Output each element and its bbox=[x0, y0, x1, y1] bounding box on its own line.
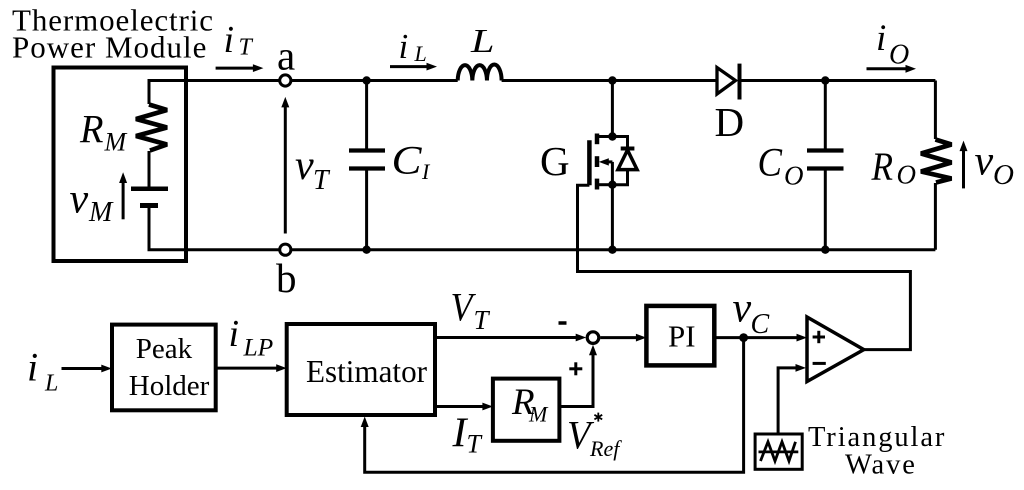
wire V_T to summing node bbox=[435, 334, 586, 342]
node dot: MOSFET source bottom bbox=[608, 246, 616, 254]
label minus bbox=[559, 321, 567, 325]
svg-text:v: v bbox=[70, 177, 89, 223]
arrow i_L to Peak Holder bbox=[62, 365, 112, 373]
block Estimator bbox=[287, 324, 435, 415]
node dot: C_I top bbox=[362, 76, 370, 84]
svg-text:Ref: Ref bbox=[589, 436, 622, 461]
mosfet drain stub bbox=[597, 135, 612, 138]
svg-text:v: v bbox=[295, 143, 314, 189]
resistor R_M bbox=[136, 105, 167, 151]
svg-text:L: L bbox=[470, 23, 495, 60]
wire: TPM internal top lead bbox=[149, 81, 186, 105]
label i_L bbox=[399, 27, 427, 66]
label V_Ref* bbox=[567, 413, 622, 462]
label v_C bbox=[733, 286, 770, 341]
svg-text:i: i bbox=[27, 345, 38, 390]
label i_LP bbox=[229, 313, 274, 362]
node dot: source junction bbox=[608, 181, 616, 189]
label i_L (control input) bbox=[27, 345, 58, 397]
wire: top rail left (box to inductor) bbox=[186, 79, 458, 82]
node dot v_C bbox=[739, 333, 748, 342]
svg-text:v: v bbox=[975, 139, 994, 185]
body diode triangle bbox=[618, 150, 637, 170]
mosfet channel tick bottom bbox=[595, 179, 600, 190]
svg-text:i: i bbox=[224, 19, 235, 61]
svg-text:M: M bbox=[528, 402, 549, 427]
label R_O bbox=[871, 144, 916, 190]
inductor L bbox=[458, 64, 502, 80]
svg-text:C: C bbox=[758, 140, 784, 185]
wire: resistor to battery bbox=[148, 151, 151, 187]
wire: top rail (inductor to diode) bbox=[502, 79, 717, 82]
arrow Peak Holder to Estimator bbox=[216, 364, 287, 372]
block R_M bbox=[493, 379, 560, 441]
node dot: drain junction bbox=[608, 132, 616, 140]
capacitor C_I bbox=[349, 81, 385, 250]
text: Triangular Wave bbox=[808, 422, 946, 481]
label i_O bbox=[876, 18, 909, 71]
mosfet channel tick middle bbox=[595, 156, 600, 167]
arrow v_O bbox=[960, 141, 968, 189]
capacitor C_O bbox=[807, 81, 844, 250]
svg-text:C: C bbox=[751, 309, 770, 340]
body diode wiring bbox=[612, 137, 627, 185]
resistor R_O bbox=[921, 140, 952, 183]
arrow i_O bbox=[867, 65, 917, 73]
svg-text:M: M bbox=[104, 128, 128, 157]
svg-text:LP: LP bbox=[243, 333, 274, 362]
text: Thermoelectric Power Module bbox=[12, 2, 214, 64]
arrow summing node to PI bbox=[600, 334, 646, 342]
wire: drain down bbox=[611, 81, 614, 137]
svg-text:i: i bbox=[876, 18, 886, 59]
wire: gate net from comparator output bbox=[578, 185, 911, 349]
label I_T bbox=[452, 411, 483, 459]
node a bbox=[280, 75, 291, 86]
svg-text:PI: PI bbox=[668, 319, 696, 354]
label i_T bbox=[224, 19, 254, 61]
svg-text:T: T bbox=[239, 35, 254, 61]
label v_M bbox=[70, 177, 115, 229]
wire: battery to bottom rail bbox=[149, 206, 186, 250]
node dot: C_I bottom bbox=[362, 246, 370, 254]
svg-text:M: M bbox=[88, 197, 114, 228]
svg-text:O: O bbox=[897, 160, 917, 190]
svg-text:L: L bbox=[414, 41, 427, 66]
svg-text:Estimator: Estimator bbox=[306, 353, 427, 389]
comparator plus bbox=[813, 331, 825, 343]
mosfet channel tick top bbox=[595, 134, 600, 145]
svg-text:R: R bbox=[79, 107, 103, 152]
block Triangular Wave generator bbox=[755, 434, 802, 469]
svg-text:Holder: Holder bbox=[129, 370, 210, 402]
block Peak Holder bbox=[112, 325, 216, 411]
arrow v_T bbox=[281, 97, 289, 234]
svg-text:b: b bbox=[276, 255, 297, 301]
svg-text:L: L bbox=[44, 371, 58, 397]
svg-text:a: a bbox=[277, 33, 295, 79]
label v_O bbox=[975, 139, 1015, 192]
wire triangular wave to comparator bbox=[778, 364, 806, 434]
arrow PI to comparator bbox=[714, 334, 807, 342]
arrow Estimator to R_M block bbox=[435, 403, 493, 411]
summing node bbox=[587, 332, 599, 344]
svg-text:C: C bbox=[392, 138, 423, 183]
svg-text:T: T bbox=[313, 165, 331, 196]
wire: right corner down to R_O bbox=[934, 81, 937, 140]
svg-text:Power Module: Power Module bbox=[12, 29, 207, 64]
arrow i_L bbox=[390, 63, 437, 71]
node dot: MOSFET drain top bbox=[608, 76, 616, 84]
wire: bottom rail bbox=[186, 248, 935, 251]
battery v_M bbox=[131, 189, 168, 206]
block PI bbox=[646, 306, 714, 366]
label C_I bbox=[392, 138, 432, 185]
transistor Q (MOSFET with body diode) bbox=[589, 132, 637, 189]
wire: body stub down to source bbox=[611, 162, 614, 185]
wire v_C feedback to Estimator bbox=[361, 338, 744, 473]
comparator U1 bbox=[807, 317, 864, 382]
svg-text:i: i bbox=[229, 313, 240, 355]
label R_M bbox=[79, 107, 127, 157]
arrow v_M bbox=[119, 172, 127, 219]
arrow i_T bbox=[216, 64, 264, 72]
svg-text:v: v bbox=[733, 286, 752, 332]
mosfet source stub bbox=[597, 183, 612, 186]
label plus bbox=[569, 362, 582, 375]
node dot: C_O bottom bbox=[821, 246, 829, 254]
triangular wave icon bbox=[761, 442, 796, 461]
TPM box bbox=[54, 68, 187, 262]
wire: top rail (diode to right corner) bbox=[740, 79, 936, 82]
svg-text:R: R bbox=[871, 144, 893, 189]
svg-text:Wave: Wave bbox=[845, 450, 917, 481]
wire: source down to bottom rail bbox=[611, 185, 614, 250]
comparator minus bbox=[813, 362, 826, 365]
wire: R_O to bottom rail bbox=[934, 183, 937, 250]
svg-text:O: O bbox=[993, 159, 1014, 191]
svg-text:O: O bbox=[784, 161, 804, 191]
mosfet body arrow stub bbox=[605, 160, 612, 163]
label C_O bbox=[758, 140, 804, 191]
mosfet gate bar bbox=[587, 140, 592, 185]
label V_T bbox=[451, 285, 491, 336]
svg-text:D: D bbox=[715, 99, 745, 145]
svg-text:T: T bbox=[474, 305, 491, 335]
wire R_M to summing node bbox=[559, 345, 597, 407]
svg-text:Peak: Peak bbox=[136, 333, 193, 365]
diode D bbox=[717, 64, 740, 100]
node dot: C_O top bbox=[821, 76, 829, 84]
svg-text:T: T bbox=[467, 430, 483, 459]
svg-text:G: G bbox=[540, 138, 570, 184]
body diode cathode bar bbox=[621, 147, 635, 151]
node b bbox=[280, 244, 291, 255]
label v_T bbox=[295, 143, 331, 196]
svg-text:Triangular: Triangular bbox=[808, 422, 946, 453]
svg-text:i: i bbox=[399, 27, 409, 66]
